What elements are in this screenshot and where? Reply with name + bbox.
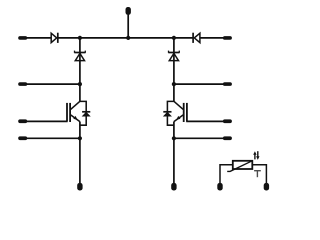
- wire right aux collector row: [174, 83, 223, 85]
- terminal pad thermistor left: [217, 183, 222, 191]
- terminal pad left 3: [18, 119, 27, 123]
- terminal pad right 2: [223, 82, 232, 86]
- zener diode Z1 left: [74, 51, 85, 61]
- thermistor label T: [254, 170, 261, 177]
- zener diode Z2 right: [168, 51, 179, 61]
- wire top terminal stem: [127, 14, 129, 38]
- diode D2 top right: [193, 33, 200, 43]
- terminal pad left 1: [18, 36, 27, 40]
- wire right leg lower: [173, 122, 175, 184]
- transistor Q1 IGBT left: [67, 101, 80, 122]
- node junction left aux collector: [78, 82, 82, 86]
- wire right leg upper: [173, 38, 175, 102]
- terminal pad thermistor right: [264, 183, 269, 191]
- node junction right aux emitter: [172, 136, 176, 140]
- diode D3 freewheel left: [80, 101, 90, 125]
- node junction right aux collector: [172, 82, 176, 86]
- terminal pad bottom right: [171, 183, 176, 191]
- diode D1 top left: [51, 33, 58, 43]
- thermistor arrows: [253, 151, 259, 160]
- node junction bus-mid: [126, 36, 130, 40]
- wire top bus middle segment: [58, 37, 193, 39]
- wire thermistor right lead: [252, 165, 266, 184]
- terminal pad right 4: [223, 136, 232, 140]
- terminal pad bottom left: [77, 183, 82, 191]
- wire left leg lower: [79, 122, 81, 184]
- terminal pad left 4: [18, 136, 27, 140]
- terminal pad right 3: [223, 119, 232, 123]
- wire right aux emitter row: [174, 137, 223, 139]
- terminal pad right 1: [223, 36, 232, 40]
- wire right gate lead: [186, 120, 223, 122]
- wire left gate lead: [27, 120, 68, 122]
- transistor Q2 IGBT right: [174, 101, 187, 122]
- wire left leg upper: [79, 38, 81, 102]
- wire left aux collector row: [27, 83, 80, 85]
- diode D4 freewheel right: [163, 101, 174, 125]
- wire left aux emitter row: [27, 137, 80, 139]
- wire thermistor left lead: [220, 165, 233, 184]
- node junction left aux emitter: [78, 136, 82, 140]
- wire top bus left segment: [27, 37, 52, 39]
- node junction bus-left: [78, 36, 82, 40]
- thermistor RT: [220, 161, 266, 184]
- node junction bus-right: [172, 36, 176, 40]
- terminal pad top: [126, 7, 131, 15]
- wire top bus right segment: [200, 37, 223, 39]
- terminal pad left 2: [18, 82, 27, 86]
